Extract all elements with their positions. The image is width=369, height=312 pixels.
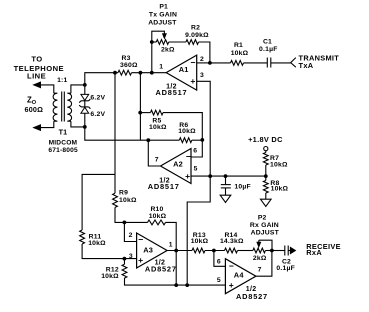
svg-text:−: −	[138, 235, 143, 245]
op-amp A2 1/2 AD8517	[161, 149, 192, 184]
wire A4 output to P2	[256, 251, 272, 277]
svg-text:1: 1	[159, 64, 163, 71]
pin 1 label A3	[169, 241, 173, 248]
label A3 plus input	[138, 255, 143, 265]
resistor R9	[113, 193, 118, 207]
svg-text:2kΩ: 2kΩ	[161, 46, 175, 53]
svg-text:10kΩ: 10kΩ	[270, 161, 288, 168]
label 9.09k ohm	[185, 32, 209, 39]
label R13	[193, 232, 206, 239]
svg-text:6.2V: 6.2V	[90, 111, 105, 118]
svg-text:+: +	[185, 171, 190, 181]
resistor R1	[231, 61, 244, 66]
label A1 1/2	[166, 84, 177, 91]
telephone line arrow top	[32, 81, 41, 88]
label A1 plus input	[190, 76, 195, 86]
svg-text:Tx GAIN: Tx GAIN	[149, 12, 177, 19]
label 2k ohm P1	[161, 46, 175, 53]
wire A3 output	[167, 250, 192, 252]
svg-text:R9: R9	[119, 190, 128, 197]
svg-text:600Ω: 600Ω	[25, 105, 44, 114]
capacitor C2	[285, 246, 288, 256]
node R12 tee	[123, 257, 127, 261]
svg-text:5: 5	[194, 165, 198, 172]
label A3 minus input	[138, 235, 143, 245]
node A2 pin7/R6 junction	[146, 138, 150, 142]
label 10k ohm R8	[271, 186, 289, 193]
label 10k ohm R13	[191, 238, 209, 245]
label A4 minus input	[229, 261, 234, 271]
label 0.1uF C1	[259, 46, 278, 53]
resistor R14	[225, 248, 238, 253]
wire transformer secondary top to node	[71, 85, 85, 93]
label 10k ohm R12	[101, 273, 119, 280]
svg-text:AD8527: AD8527	[236, 292, 268, 301]
wire R3 to A1 output	[132, 72, 167, 74]
wire tee to R10	[124, 221, 147, 223]
wire A3 feedback down	[175, 251, 177, 286]
label +1.8V DC	[248, 135, 283, 144]
svg-text:6: 6	[217, 259, 221, 266]
svg-text:P1: P1	[159, 3, 168, 10]
label ADJUST P2	[251, 229, 280, 236]
wire R5 left stub	[140, 112, 150, 114]
node R6 right junction	[200, 138, 204, 142]
label 10k ohm R6	[178, 128, 196, 135]
label 10k ohm R7	[270, 161, 288, 168]
wire R10 to A3 output	[166, 222, 177, 250]
svg-text:10kΩ: 10kΩ	[149, 213, 167, 220]
wire between zeners	[84, 101, 86, 107]
svg-text:6: 6	[193, 148, 197, 155]
pin 5 label A4	[217, 277, 221, 284]
pin 5 label A2	[194, 165, 198, 172]
label ADJUST	[148, 20, 177, 27]
resistor R8	[263, 176, 268, 199]
label R10	[150, 206, 163, 213]
label A4	[234, 271, 245, 280]
svg-text:R2: R2	[191, 25, 200, 32]
wire P1 to R2	[169, 41, 186, 43]
wire node up to R3 line	[85, 73, 118, 85]
pin 3 label A1	[200, 72, 204, 79]
node transformer/zener top junction	[83, 83, 87, 87]
wire A2 pin5 output	[191, 175, 266, 177]
svg-text:TO: TO	[31, 54, 42, 63]
label R6	[179, 122, 188, 129]
transformer T1 primary winding	[53, 93, 57, 121]
svg-text:AD8517: AD8517	[148, 182, 180, 191]
svg-text:+: +	[229, 280, 234, 290]
node R13/R14 junction	[212, 249, 216, 253]
pin 6 label A4	[217, 259, 221, 266]
node A1 output / P1 tee	[150, 71, 154, 75]
wire transformer secondary bottom to node	[71, 121, 85, 127]
pin 7 label A2	[155, 157, 159, 164]
label R3	[122, 55, 131, 62]
label R7	[270, 155, 279, 162]
wire A1 pin3	[197, 81, 211, 176]
svg-text:10kΩ: 10kΩ	[88, 240, 106, 247]
resistor R13	[192, 248, 205, 253]
svg-text:MIDCOM: MIDCOM	[49, 139, 78, 146]
resistor R5	[151, 110, 164, 115]
svg-text:10kΩ: 10kΩ	[191, 238, 209, 245]
label 10k ohm R11	[88, 240, 106, 247]
node 10uF junction	[224, 174, 228, 178]
ground below R8	[261, 199, 272, 206]
svg-text:1: 1	[169, 241, 173, 248]
pin 2 label A1	[200, 56, 204, 63]
svg-text:−: −	[186, 151, 191, 161]
node R3 left junction	[113, 71, 117, 75]
svg-text:10kΩ: 10kΩ	[119, 197, 137, 204]
svg-text:7: 7	[258, 267, 262, 274]
svg-text:14.3kΩ: 14.3kΩ	[220, 238, 244, 245]
label 1:1 ratio	[57, 77, 67, 84]
svg-text:0.1µF: 0.1µF	[276, 265, 295, 272]
wire telephone top to transformer	[41, 85, 54, 93]
svg-text:0.1µF: 0.1µF	[259, 46, 278, 53]
svg-text:ADJUST: ADJUST	[251, 229, 280, 236]
label R9	[119, 190, 128, 197]
label C2	[282, 259, 291, 266]
node A3 feedback to pin5 line	[174, 283, 178, 287]
resistor R2	[186, 40, 199, 45]
label 10k ohm R5	[149, 124, 167, 131]
svg-text:10kΩ: 10kΩ	[101, 273, 119, 280]
label A4 1/2	[246, 286, 257, 293]
svg-text:AD8527: AD8527	[145, 265, 177, 274]
label R2	[191, 25, 200, 32]
supply terminal circle	[264, 147, 268, 151]
label A1 AD8517	[156, 88, 188, 97]
svg-text:A2: A2	[173, 160, 183, 169]
label A2 1/2	[159, 178, 170, 185]
label R5	[152, 118, 161, 125]
label 10k ohm R1	[231, 50, 249, 57]
label A2	[173, 160, 183, 169]
resistor R3	[118, 70, 132, 75]
pin 3 label A3	[129, 253, 133, 260]
label R8	[270, 180, 279, 187]
svg-text:2kΩ: 2kΩ	[253, 255, 267, 262]
wire P2 to C2	[272, 250, 285, 252]
svg-text:2: 2	[129, 232, 133, 239]
wire zener bottom down to A2 output line	[85, 127, 149, 140]
node A1 pin2 / R1 junction	[208, 61, 212, 65]
svg-text:RxA: RxA	[306, 248, 322, 257]
label 2k ohm P2	[253, 255, 267, 262]
node A3 output junction	[174, 249, 178, 253]
wire P1 left leg	[151, 42, 153, 73]
node R7/R8 junction	[264, 174, 268, 178]
wire R11 to A3 pin3	[82, 244, 137, 259]
svg-text:5: 5	[217, 277, 221, 284]
label R12	[106, 267, 119, 274]
wire R6 right stub	[192, 139, 203, 141]
node A3 pin2 tee	[123, 221, 127, 225]
label A2 AD8517	[148, 182, 180, 191]
wire A2 pin7 to feedback	[148, 140, 160, 166]
svg-text:A3: A3	[143, 246, 153, 255]
label RxA	[306, 248, 322, 257]
svg-text:ADJUST: ADJUST	[148, 20, 177, 27]
svg-text:3: 3	[129, 253, 133, 260]
svg-text:T1: T1	[59, 128, 68, 137]
svg-text:Rx GAIN: Rx GAIN	[250, 222, 279, 229]
wire R11 top branch	[82, 174, 115, 230]
op-amp A3 1/2 AD8527	[137, 233, 168, 268]
label Rx GAIN	[250, 222, 279, 229]
svg-text:P2: P2	[258, 215, 267, 222]
op-amp A1 1/2 AD8517	[166, 55, 197, 90]
svg-text:LINE: LINE	[27, 71, 46, 80]
svg-text:7: 7	[155, 157, 159, 164]
label TxA	[299, 61, 314, 70]
svg-text:10kΩ: 10kΩ	[178, 128, 196, 135]
label 14.3k ohm	[220, 238, 244, 245]
wire R13 to R14	[205, 250, 225, 252]
resistor R10	[148, 220, 166, 225]
svg-text:+1.8V DC: +1.8V DC	[248, 135, 283, 144]
pin 6 label A2	[193, 148, 197, 155]
svg-text:+: +	[138, 255, 143, 265]
label R1	[234, 42, 243, 49]
node R3 right / R5 tee	[139, 71, 143, 75]
node TO TELEPHONE LINE label	[14, 54, 64, 80]
label RECEIVE	[306, 242, 341, 251]
label R11	[89, 233, 102, 240]
wire bias jog to A4 line	[187, 176, 210, 285]
wire C2 to arrow	[288, 250, 290, 252]
wire R9 column top	[114, 73, 116, 194]
svg-text:6.2V: 6.2V	[90, 95, 105, 102]
wire R12 to A4 pin5 line	[125, 278, 226, 285]
label R14	[224, 232, 237, 239]
svg-text:10kΩ: 10kΩ	[149, 124, 167, 131]
wire A1 pin2	[197, 62, 210, 64]
resistor R7	[263, 151, 268, 176]
potentiometer P2 2k	[253, 240, 272, 253]
svg-text:A1: A1	[179, 65, 189, 74]
pin 7 label A4	[258, 267, 262, 274]
label TRANSMIT	[299, 54, 340, 63]
label P1	[159, 3, 168, 10]
svg-text:9.09kΩ: 9.09kΩ	[185, 32, 209, 39]
wire R6 left stub	[148, 139, 179, 141]
svg-text:−: −	[229, 261, 234, 271]
label A3 AD8527	[145, 265, 177, 274]
svg-text:2: 2	[200, 56, 204, 63]
svg-text:10µF: 10µF	[234, 183, 250, 190]
resistor R12	[122, 259, 127, 278]
label A2 plus input	[185, 171, 190, 181]
label 671-8005	[48, 147, 78, 154]
label 600 ohm	[25, 105, 44, 114]
label Tx GAIN	[149, 12, 177, 19]
svg-text:10kΩ: 10kΩ	[271, 186, 289, 193]
wire R2 to pin2 node	[199, 42, 210, 63]
label A3	[143, 246, 153, 255]
transformer T1 secondary winding	[67, 93, 71, 121]
label 10k ohm R9	[119, 197, 137, 204]
wire A4 pin6	[214, 251, 226, 267]
node P2 wiper junction	[270, 249, 274, 253]
label A1	[179, 65, 189, 74]
label ZO impedance	[27, 96, 37, 107]
label 6.2V top	[90, 95, 105, 102]
wire R1 to C1	[244, 62, 268, 64]
svg-text:AD8517: AD8517	[156, 88, 188, 97]
wire telephone bottom to transformer	[41, 121, 54, 127]
connector chevron TxA	[291, 58, 296, 68]
label 10k ohm R10	[149, 213, 167, 220]
wire R14 to P2	[238, 250, 253, 252]
node R5 left junction	[138, 111, 142, 115]
wire C1 to TxA connector	[271, 62, 291, 64]
transformer T1 core	[62, 92, 65, 122]
label 360 ohm	[120, 62, 138, 69]
label C1	[263, 39, 272, 46]
telephone line arrow bottom	[32, 124, 41, 131]
receive arrow RxA	[290, 247, 295, 254]
label A4 AD8527	[236, 292, 268, 301]
label MIDCOM	[49, 139, 78, 146]
svg-text:10kΩ: 10kΩ	[231, 50, 249, 57]
wire R5 right to pin6	[163, 113, 202, 157]
label 0.1uF C2	[276, 265, 295, 272]
pin 2 label A3	[129, 232, 133, 239]
zener diode D1 6.2V	[79, 85, 90, 103]
svg-text:C1: C1	[263, 39, 272, 46]
label A4 plus input	[229, 280, 234, 290]
svg-text:R10: R10	[150, 206, 163, 213]
label 6.2V bottom	[90, 111, 105, 118]
ground below 10uF	[220, 195, 231, 202]
op-amp A4 1/2 AD8527	[225, 259, 256, 294]
potentiometer P1 2k	[150, 31, 169, 44]
resistor R6	[179, 138, 192, 143]
label A3 1/2	[155, 260, 166, 267]
pin 1 label A1	[159, 64, 163, 71]
label 10uF	[234, 183, 250, 190]
wire pin2 node to R1	[210, 62, 231, 64]
svg-text:TxA: TxA	[299, 61, 314, 70]
node pin5/pin3 junction	[208, 174, 212, 178]
svg-text:R1: R1	[234, 42, 243, 49]
label A1 minus input	[190, 57, 195, 67]
label P2	[258, 215, 267, 222]
svg-text:3: 3	[200, 72, 204, 79]
capacitor 10uF	[221, 176, 231, 195]
node transformer/zener bottom junction	[83, 125, 87, 129]
label A2 minus input	[186, 151, 191, 161]
wire A3 pin2	[124, 222, 136, 241]
wire R5 column	[139, 73, 141, 141]
svg-text:671-8005: 671-8005	[48, 147, 78, 154]
svg-text:+: +	[190, 76, 195, 86]
node A2 bias to pin5 line	[185, 283, 189, 287]
capacitor C1	[267, 58, 271, 68]
svg-text:−: −	[190, 57, 195, 67]
svg-text:A4: A4	[234, 271, 245, 280]
resistor R11	[80, 230, 85, 244]
label T1	[59, 128, 68, 137]
svg-text:1:1: 1:1	[57, 77, 67, 84]
zener diode D2 6.2V	[79, 105, 90, 127]
wire R9 bottom to tee	[115, 207, 124, 222]
svg-text:360Ω: 360Ω	[120, 62, 138, 69]
